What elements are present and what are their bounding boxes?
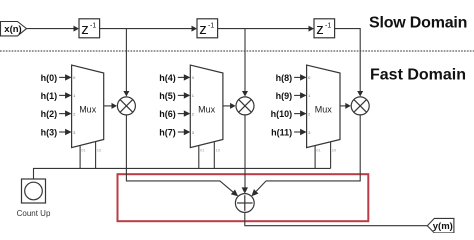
label h(1)	[41, 91, 58, 101]
svg-text:h(10): h(10)	[271, 109, 293, 119]
wire multiplier M2 to adder	[242, 115, 248, 194]
label Slow Domain	[369, 14, 467, 31]
delay block Z2	[197, 19, 218, 38]
wire h(9) into mux MUX3	[294, 92, 307, 98]
wire adder to y(m)	[245, 212, 427, 225]
svg-text:Slow Domain: Slow Domain	[369, 14, 467, 31]
label h(6)	[159, 109, 176, 119]
wire h(7) into mux MUX2	[178, 129, 191, 135]
svg-text:h(9): h(9)	[276, 91, 293, 101]
wire mux MUX2 select port 1 to bus	[199, 146, 205, 169]
wire h(0) into mux MUX1	[59, 74, 72, 80]
svg-text:h(4): h(4)	[159, 73, 176, 83]
wire h(8) into mux MUX3	[294, 74, 307, 80]
label h(10)	[271, 109, 293, 119]
wire h(10) into mux MUX3	[294, 110, 307, 116]
wire h(3) into mux MUX1	[59, 129, 72, 135]
wire h(1) into mux MUX1	[59, 92, 72, 98]
wire mux MUX2 select port 2 to bus	[214, 142, 220, 169]
mux MUX2	[190, 65, 223, 148]
svg-text:x(n): x(n)	[4, 24, 21, 35]
label h(11)	[271, 128, 292, 138]
multiplier M2	[236, 97, 254, 115]
svg-text:h(2): h(2)	[41, 109, 58, 119]
svg-text:10: 10	[97, 148, 102, 153]
svg-text:01: 01	[200, 148, 205, 153]
svg-text:-1: -1	[325, 23, 331, 30]
label h(5)	[159, 91, 176, 101]
wire Z3 to multiplier M3	[335, 29, 364, 97]
svg-text:01: 01	[81, 148, 86, 153]
wire h(4) into mux MUX2	[178, 74, 191, 80]
counter Count Up	[17, 179, 51, 218]
wire h(5) into mux MUX2	[178, 92, 191, 98]
svg-text:z: z	[81, 21, 89, 38]
multiplier M3	[351, 97, 369, 115]
svg-text:-1: -1	[90, 23, 96, 30]
label h(4)	[159, 73, 176, 83]
wire mux MUX3 to multiplier M3	[340, 103, 351, 109]
wire h(2) into mux MUX1	[59, 110, 72, 116]
domain boundary dashed line	[0, 50, 474, 52]
svg-text:h(8): h(8)	[276, 73, 293, 83]
svg-text:y(m): y(m)	[433, 221, 453, 232]
svg-text:h(3): h(3)	[41, 128, 58, 138]
svg-text:Mux: Mux	[198, 105, 216, 115]
label h(8)	[276, 73, 293, 83]
wire h(11) into mux MUX3	[294, 129, 307, 135]
svg-text:h(6): h(6)	[159, 109, 176, 119]
wire mux MUX1 select port 2 to bus	[96, 142, 102, 169]
svg-text:10: 10	[216, 148, 221, 153]
wire counter to select bus	[34, 168, 331, 179]
svg-text:h(7): h(7)	[159, 128, 176, 138]
wire mux MUX2 to multiplier M2	[223, 103, 236, 109]
red highlight rectangle	[118, 174, 369, 221]
wire h(6) into mux MUX2	[178, 110, 191, 116]
adder A1	[235, 194, 254, 213]
svg-text:h(11): h(11)	[271, 128, 292, 138]
svg-text:h(1): h(1)	[41, 91, 58, 101]
label h(0)	[41, 73, 58, 83]
wire multiplier M3 to adder	[251, 115, 360, 196]
svg-text:z: z	[316, 21, 324, 38]
label h(3)	[41, 128, 58, 138]
mux MUX3	[307, 65, 340, 148]
wire Z2 to Z3	[218, 26, 314, 32]
multiplier M1	[117, 97, 135, 115]
svg-text:01: 01	[316, 148, 321, 153]
wire mux MUX1 select port 1 to bus	[80, 146, 86, 169]
svg-text:h(5): h(5)	[159, 91, 176, 101]
svg-text:Mux: Mux	[79, 105, 97, 115]
wire x(n) to Z1	[27, 26, 80, 32]
mux MUX1	[72, 65, 104, 148]
delay block Z3	[314, 19, 335, 38]
svg-text:-1: -1	[208, 23, 214, 30]
wire multiplier M1 to adder	[126, 115, 238, 196]
wire mux MUX3 select port 1 to bus	[315, 146, 321, 169]
wire tap to multiplier M2	[242, 29, 248, 97]
svg-text:Fast Domain: Fast Domain	[370, 67, 466, 84]
delay block Z1	[79, 19, 100, 38]
output tag y(m)	[427, 218, 454, 233]
svg-text:10: 10	[332, 148, 337, 153]
svg-text:z: z	[199, 21, 207, 38]
label h(7)	[159, 128, 176, 138]
svg-text:Mux: Mux	[315, 105, 333, 115]
input tag x(n)	[1, 22, 27, 36]
wire tap to multiplier M1	[123, 29, 129, 97]
label Fast Domain	[370, 67, 466, 84]
label h(9)	[276, 91, 293, 101]
wire mux MUX3 select port 2 to bus	[331, 142, 337, 169]
label h(2)	[41, 109, 58, 119]
svg-text:Count Up: Count Up	[17, 209, 51, 218]
wire mux MUX1 to multiplier M1	[104, 103, 117, 109]
wire Z1 to Z2	[100, 26, 197, 32]
svg-text:h(0): h(0)	[41, 73, 58, 83]
